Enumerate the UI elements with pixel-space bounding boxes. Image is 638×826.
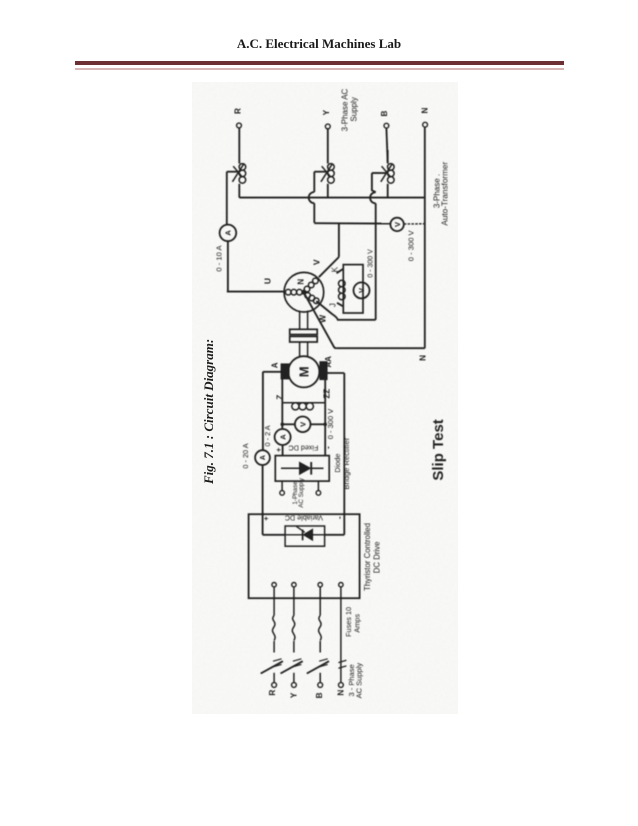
svg-text:N: N [420, 107, 429, 113]
svg-text:Fixed DC: Fixed DC [288, 444, 318, 453]
svg-text:A: A [224, 230, 233, 236]
svg-text:Amps: Amps [352, 614, 361, 633]
svg-text:AC Supply: AC Supply [355, 663, 364, 699]
svg-text:DC Drive: DC Drive [373, 542, 382, 574]
svg-text:3-Phase AC: 3-Phase AC [341, 88, 350, 131]
svg-text:0 - 300 V: 0 - 300 V [367, 249, 374, 278]
svg-text:Variable DC: Variable DC [285, 513, 323, 522]
svg-text:B: B [380, 110, 389, 116]
svg-text:0 - 10 A: 0 - 10 A [214, 244, 223, 271]
svg-text:Bridge Rectifier: Bridge Rectifier [342, 437, 351, 489]
svg-text:-: - [323, 446, 333, 449]
svg-text:+: + [274, 447, 283, 452]
svg-text:N: N [418, 355, 427, 361]
svg-text:0 - 300 V: 0 - 300 V [326, 409, 335, 439]
svg-text:ZZ: ZZ [322, 389, 331, 399]
svg-text:0 - 2 A: 0 - 2 A [263, 425, 272, 446]
svg-text:Y: Y [322, 109, 331, 115]
svg-text:Slip Test: Slip Test [430, 419, 447, 480]
svg-text:A: A [279, 434, 288, 440]
svg-text:A: A [260, 455, 267, 460]
svg-text:Thyristor Controlled: Thyristor Controlled [363, 523, 372, 591]
svg-text:Y: Y [289, 692, 298, 698]
svg-text:R: R [268, 690, 277, 696]
svg-text:R: R [233, 108, 242, 114]
svg-text:K: K [330, 266, 339, 272]
svg-text:Supply: Supply [350, 97, 359, 121]
svg-text:M: M [296, 366, 311, 377]
svg-text:AC Supply: AC Supply [298, 477, 305, 508]
svg-text:N: N [296, 279, 305, 285]
svg-text:N: N [336, 690, 345, 696]
svg-text:Auto-Transformer: Auto-Transformer [441, 162, 450, 226]
svg-text:B: B [315, 692, 324, 698]
svg-text:AA: AA [324, 356, 333, 368]
svg-text:0 - 20 A: 0 - 20 A [241, 443, 250, 468]
svg-text:0 - 300 V: 0 - 300 V [407, 229, 416, 261]
svg-text:-: - [334, 516, 344, 519]
svg-text:A: A [271, 362, 280, 368]
svg-text:V: V [312, 259, 322, 265]
svg-text:Z: Z [276, 395, 285, 400]
svg-text:U: U [262, 278, 272, 284]
svg-text:Diode: Diode [333, 454, 342, 473]
